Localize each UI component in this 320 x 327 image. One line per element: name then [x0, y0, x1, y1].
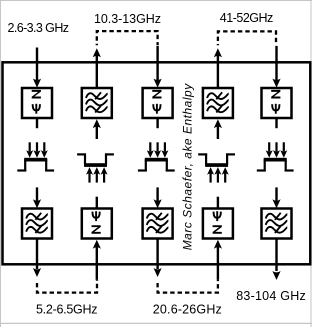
svg-text:2.6-3.3 GHz: 2.6-3.3 GHz — [8, 21, 70, 35]
svg-text:41-52GHz: 41-52GHz — [220, 11, 273, 25]
svg-text:Marc Schaefer, ake Enthalpy: Marc Schaefer, ake Enthalpy — [181, 83, 195, 251]
svg-text:10.3-13GHz: 10.3-13GHz — [94, 12, 161, 26]
svg-text:83-104 GHz: 83-104 GHz — [236, 289, 306, 303]
svg-text:20.6-26GHz: 20.6-26GHz — [153, 303, 222, 317]
svg-text:5.2-6.5GHz: 5.2-6.5GHz — [36, 302, 98, 316]
